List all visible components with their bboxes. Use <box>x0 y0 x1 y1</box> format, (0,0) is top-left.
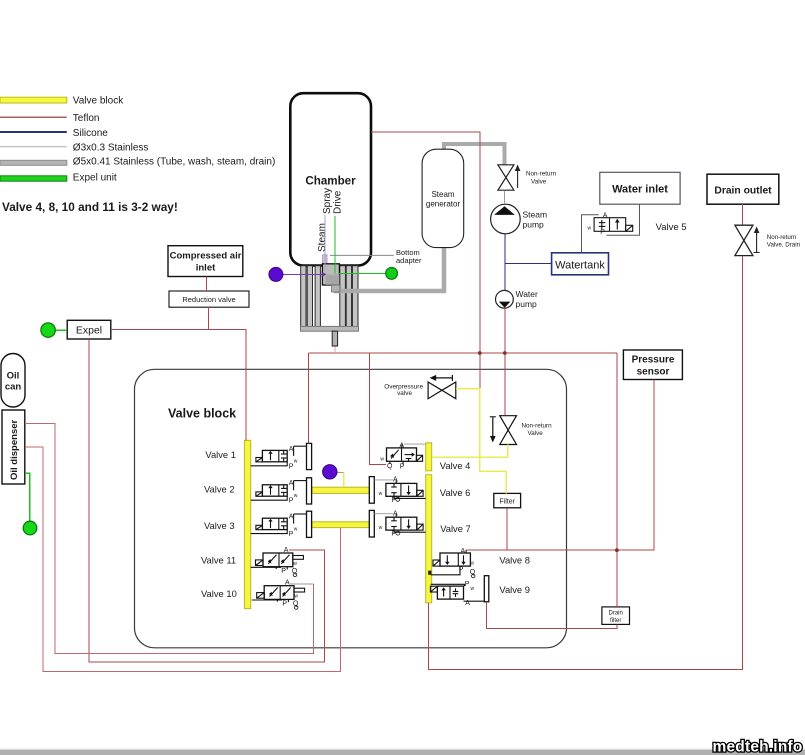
valve block left yellow bar <box>244 440 250 608</box>
non-return valve (valve block) label <box>522 423 553 438</box>
drain filter box <box>602 607 630 625</box>
svg-text:Valve 2: Valve 2 <box>204 483 235 494</box>
wire: oil dispenser line 2 to lower manifold bar <box>25 447 341 671</box>
expel box <box>67 320 111 339</box>
bottom adapter block <box>322 264 339 285</box>
wire: valve 10 A gray lead <box>290 583 313 585</box>
chamber support base <box>301 326 359 331</box>
pressure sensor box <box>623 350 682 380</box>
svg-text:Filter: Filter <box>499 498 515 505</box>
wire: silicone tee to watertank <box>505 263 552 265</box>
valve 3 symbol <box>251 511 312 538</box>
svg-text:pump: pump <box>516 299 538 309</box>
svg-text:Drain outlet: Drain outlet <box>714 186 772 197</box>
steam pipe generator top to non-return valve <box>444 144 505 165</box>
wire: chamber vent to overpressure junction <box>371 132 480 389</box>
steam pipe from generator bottom to chamber adapter <box>334 248 446 291</box>
bottom adapter label <box>396 248 422 265</box>
valve 11 symbol <box>251 547 304 577</box>
svg-text:Expel: Expel <box>76 325 102 337</box>
wire: lavender spray line <box>324 215 326 270</box>
port mark on right yellow bar <box>428 571 431 575</box>
svg-text:generator: generator <box>426 199 461 208</box>
green oil circle <box>23 521 37 535</box>
svg-text:Oil dispenser: Oil dispenser <box>9 420 20 480</box>
non-return valve drain arrow <box>756 231 758 253</box>
svg-text:Valve 11: Valve 11 <box>201 555 236 566</box>
wire: yellow overpressure to junction <box>456 389 480 458</box>
wire: yellow NRV bottom stub <box>507 445 509 458</box>
svg-text:Teflon: Teflon <box>73 113 100 124</box>
svg-text:adapter: adapter <box>396 256 422 265</box>
valve 9 symbol <box>430 576 488 607</box>
non-return valve drain <box>735 225 753 255</box>
non-return valve (valve block) arrow <box>492 418 494 438</box>
svg-text:Valve 9: Valve 9 <box>499 584 530 595</box>
yellow manifold crossbar upper <box>312 487 369 493</box>
valve block right yellow bar (lower segment) <box>426 475 432 603</box>
svg-text:Reduction valve: Reduction valve <box>182 295 235 304</box>
compressed air inlet box <box>168 246 243 277</box>
svg-text:Valve 5: Valve 5 <box>656 222 687 233</box>
svg-text:Pressure: Pressure <box>632 355 675 366</box>
svg-text:Valve 1: Valve 1 <box>205 449 236 460</box>
wire: compressed air inlet to reduction valve <box>205 277 207 292</box>
svg-text:w: w <box>293 561 297 567</box>
svg-text:Valve, Drain: Valve, Drain <box>767 242 801 249</box>
non-return valve drain label <box>767 234 801 249</box>
wire: green oil dispenser to circle <box>25 473 30 521</box>
svg-text:Valve block: Valve block <box>168 407 236 421</box>
svg-text:Non-return: Non-return <box>526 171 557 178</box>
svg-text:P: P <box>281 568 286 575</box>
svg-text:Compressed air: Compressed air <box>170 251 242 262</box>
svg-text:P: P <box>465 581 470 588</box>
wire: purple inlet to adapter <box>283 273 322 275</box>
svg-text:w: w <box>380 456 384 462</box>
purple inlet circle <box>269 267 283 281</box>
svg-text:Water: Water <box>516 289 539 299</box>
non-return valve (steam) label <box>526 171 557 186</box>
valve 4 symbol <box>380 443 425 471</box>
wire: chamber stub to manifold <box>334 346 336 353</box>
bottom adapter lavender inlet <box>323 255 327 271</box>
svg-text:Non-return: Non-return <box>767 234 797 241</box>
svg-text:Valve 6: Valve 6 <box>440 487 471 498</box>
chamber base stub <box>332 331 337 346</box>
svg-text:Steam: Steam <box>431 190 454 199</box>
bottom gray band <box>0 750 805 755</box>
wire: wash manifold horizontal <box>309 352 617 354</box>
svg-text:Steam: Steam <box>317 223 328 252</box>
filter box <box>494 493 521 507</box>
legend expel unit sample <box>0 176 67 181</box>
purple valve block circle <box>323 465 337 479</box>
purple arrowhead at adapter <box>322 272 327 277</box>
wire: water pump down to NRV <box>504 308 506 415</box>
valve 7 symbol <box>369 510 425 537</box>
oil dispenser <box>2 410 25 484</box>
svg-text:A: A <box>399 443 404 450</box>
svg-text:Ø3x0.3 Stainless: Ø3x0.3 Stainless <box>73 142 149 153</box>
svg-text:can: can <box>5 382 22 393</box>
valve 5 lead P to water inlet <box>607 204 640 235</box>
legend silicone sample <box>0 131 67 133</box>
legend stainless 5x0.41 sample <box>0 160 67 165</box>
svg-text:Drain: Drain <box>609 610 623 616</box>
wire: purple circle gray stub <box>337 471 344 473</box>
wire: expel box to left yellow bar <box>111 330 246 441</box>
svg-text:inlet: inlet <box>196 263 216 274</box>
bottom adapter pointer line <box>330 254 394 256</box>
yellow manifold crossbar lower <box>312 522 369 528</box>
legend teflon sample <box>0 116 67 118</box>
svg-text:Oil: Oil <box>7 371 20 382</box>
wire: valve 9 port to drain filter <box>486 602 617 629</box>
oil can <box>1 354 25 408</box>
svg-text:A: A <box>603 213 608 220</box>
svg-text:Valve 4, 8, 10 and 11 is 3-2 w: Valve 4, 8, 10 and 11 is 3-2 way! <box>2 200 178 214</box>
water pump label <box>516 289 539 309</box>
svg-text:Drive: Drive <box>333 190 344 214</box>
wire: reduction valve down to expel junction <box>207 307 209 329</box>
watertank box <box>552 253 609 275</box>
svg-text:Chamber: Chamber <box>305 175 356 188</box>
green expel circle <box>41 323 55 337</box>
bottom light strip <box>0 749 805 750</box>
overpressure valve label <box>384 383 423 397</box>
valve block right yellow bar (upper segment) <box>426 443 432 471</box>
wire: silicone steam pump to water pump <box>504 234 506 290</box>
drain outlet box <box>707 174 779 204</box>
svg-text:w: w <box>470 560 474 566</box>
non-return valve (steam) <box>498 165 514 190</box>
chamber <box>290 93 371 265</box>
overpressure valve symbol <box>428 382 456 399</box>
svg-text:Valve 3: Valve 3 <box>204 520 235 531</box>
wire: yellow right bar to NRV junction <box>433 456 508 458</box>
overpressure valve arrow <box>434 377 452 379</box>
svg-text:Q: Q <box>387 463 393 470</box>
valve 8 symbol <box>431 548 476 578</box>
svg-text:Valve 4: Valve 4 <box>440 460 471 471</box>
svg-text:Valve 8: Valve 8 <box>499 555 530 566</box>
svg-text:w: w <box>588 226 592 232</box>
wire: yellow junction to filter <box>480 457 507 493</box>
valve 2 symbol <box>251 478 312 505</box>
non-return valve (steam) arrow <box>517 169 519 188</box>
svg-text:Water inlet: Water inlet <box>612 184 668 196</box>
wire: expel down to valve 11 A <box>89 339 325 662</box>
valve 5 symbol <box>594 218 633 232</box>
svg-text:Valve block: Valve block <box>73 95 124 106</box>
svg-text:A: A <box>465 600 470 607</box>
svg-text:medteh.info: medteh.info <box>712 739 802 755</box>
valve 10 symbol <box>252 580 305 610</box>
wire: gray NRV to steam pump <box>504 190 506 204</box>
green adapter circle <box>386 268 398 280</box>
svg-text:Valve 7: Valve 7 <box>440 523 471 534</box>
svg-text:w: w <box>471 586 475 592</box>
svg-text:Watertank: Watertank <box>555 260 605 272</box>
valve block panel <box>135 369 567 648</box>
svg-text:sensor: sensor <box>637 367 670 378</box>
svg-text:A: A <box>289 446 294 453</box>
steam generator <box>422 149 464 247</box>
svg-text:filter: filter <box>610 618 621 624</box>
wire: green expel circle to box <box>55 329 67 331</box>
wire: manifold to valve 4 Q <box>369 353 386 464</box>
valve 6 symbol <box>369 477 425 504</box>
wire: drain outlet to NRV <box>741 204 743 225</box>
svg-text:Valve: Valve <box>528 430 544 437</box>
legend stainless 3x0.3 sample <box>0 146 67 148</box>
svg-text:P: P <box>600 229 605 236</box>
svg-text:Valve 10: Valve 10 <box>201 588 237 599</box>
non-return valve (valve block) <box>500 416 517 445</box>
svg-text:w: w <box>294 459 298 465</box>
svg-text:w: w <box>379 491 383 497</box>
svg-text:Silicone: Silicone <box>73 128 108 139</box>
svg-text:Steam: Steam <box>523 210 548 220</box>
junction dot water/manifold <box>503 351 507 355</box>
steam pump <box>491 204 521 234</box>
svg-text:Non-return: Non-return <box>522 423 553 430</box>
junction dot drain/valve8 line <box>615 548 619 552</box>
wire: pressure sensor to valve 8 A <box>466 380 654 551</box>
svg-text:Ø5x0.41 Stainless (Tube, wash,: Ø5x0.41 Stainless (Tube, wash, steam, dr… <box>73 157 275 168</box>
legend valve block sample <box>0 97 67 103</box>
wire: filter bottom to valve 8 line <box>506 508 508 550</box>
wire: purple circle yellow drop to manifold bar <box>343 472 345 487</box>
wire: manifold right end down to drain filter <box>616 353 618 607</box>
valve 1 symbol <box>251 443 312 470</box>
svg-text:P: P <box>459 567 464 574</box>
wire: green drive line to adapter <box>334 216 336 274</box>
svg-text:A: A <box>393 477 398 484</box>
svg-text:P: P <box>400 463 405 470</box>
water inlet box <box>600 172 680 204</box>
chamber support legs <box>301 266 358 327</box>
valve 5 lead A to watertank <box>582 215 599 253</box>
svg-text:A: A <box>284 547 289 554</box>
bottom adapter step to steam pipe <box>332 285 340 292</box>
svg-text:Valve: Valve <box>531 179 547 186</box>
svg-text:Expel unit: Expel unit <box>73 172 117 183</box>
reduction valve box <box>169 291 249 307</box>
svg-text:A: A <box>461 548 466 555</box>
wire: oil dispenser line 1 to valve 10 A <box>25 424 314 654</box>
steam pump label <box>523 210 548 230</box>
water pump <box>496 290 514 308</box>
junction dot chamber/manifold <box>478 351 482 355</box>
wire: right bar bottom to drain NRV loop <box>428 256 742 670</box>
bottom adapter inner shade <box>326 275 340 285</box>
wire: green circle to adapter <box>339 273 387 275</box>
wire: manifold to valve 1 port <box>308 353 310 443</box>
svg-text:pump: pump <box>523 220 545 230</box>
svg-text:valve: valve <box>397 390 412 397</box>
